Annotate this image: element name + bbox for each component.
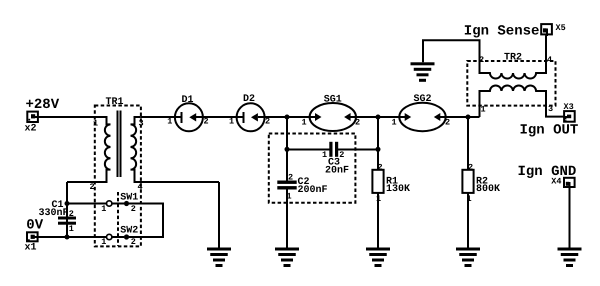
resistor R2: [462, 170, 473, 193]
svg-text:2: 2: [479, 55, 484, 65]
ground (R2): [456, 248, 480, 268]
ground (R1): [366, 248, 390, 268]
svg-text:1: 1: [167, 117, 172, 127]
svg-text:3: 3: [548, 104, 553, 114]
wire TR1 pin4 to ground: [218, 182, 220, 248]
svg-text:2: 2: [339, 150, 344, 160]
wire bus down to R2: [467, 117, 469, 170]
TR2 secondary winding bottom (pins 1-3): [480, 85, 564, 117]
wire node to C3: [287, 148, 330, 150]
svg-text:x1: x1: [25, 243, 37, 254]
svg-text:800K: 800K: [476, 184, 500, 195]
wire C2 to ground: [286, 190, 288, 249]
svg-text:SG1: SG1: [324, 95, 342, 106]
svg-text:2: 2: [288, 172, 293, 182]
wire D2 to SG1: [258, 116, 311, 118]
spark gap SG2: [399, 103, 445, 131]
svg-text:2: 2: [69, 209, 74, 219]
wire X4 to ground: [569, 188, 571, 248]
svg-text:2: 2: [378, 163, 383, 173]
svg-text:2: 2: [468, 163, 473, 173]
svg-text:1: 1: [322, 150, 327, 160]
mechanical linkage (dashed): [117, 192, 119, 246]
wire bus down to R1: [377, 117, 379, 170]
TR1 primary winding (pins 1-2): [67, 117, 111, 182]
svg-text:X3: X3: [564, 102, 574, 112]
wire SG2 to TR2: [446, 116, 480, 118]
switch SW2: [107, 234, 130, 239]
wire R2 to ground: [467, 193, 469, 248]
svg-text:4: 4: [547, 55, 552, 65]
spark gap SG1: [310, 103, 356, 131]
diode D2: [237, 103, 265, 131]
svg-text:1: 1: [93, 119, 98, 129]
TR1 core: [118, 111, 121, 178]
dashed box C2 C3: [269, 134, 356, 203]
ground (TR1 pin4): [207, 248, 231, 268]
wire C3 to R1 node: [338, 148, 378, 150]
svg-text:0V: 0V: [26, 217, 43, 233]
svg-text:130K: 130K: [386, 184, 410, 195]
terminal X4: [564, 178, 575, 188]
TR2 primary winding top (pins 2-4) with wire to ground: [423, 35, 546, 78]
ground (upper, TR2 pin2): [411, 62, 435, 82]
wire link SW1 pin2 to SW2 pin2: [129, 203, 163, 238]
wire SW2 to X1: [40, 236, 107, 238]
svg-text:2: 2: [90, 182, 95, 192]
terminal X5: [541, 24, 552, 36]
svg-text:1: 1: [302, 118, 307, 128]
terminal X1: [27, 232, 40, 241]
svg-text:Ign Sense: Ign Sense: [464, 23, 540, 39]
TR1 secondary winding (pins 3-4): [131, 117, 220, 182]
svg-text:X4: X4: [551, 176, 561, 186]
resistor R1: [372, 170, 383, 193]
wire TR1 to D1: [141, 116, 182, 118]
svg-text:SW2: SW2: [120, 225, 138, 236]
junction dot C2/C3: [285, 147, 290, 152]
svg-text:1: 1: [481, 105, 486, 115]
svg-text:1: 1: [101, 204, 106, 214]
capacitor C3: [329, 142, 338, 157]
svg-text:D1: D1: [182, 95, 194, 106]
svg-text:X5: X5: [556, 23, 566, 33]
wire R1 to ground: [377, 193, 379, 248]
capacitor C1: [58, 217, 76, 225]
transformer TR2 dashed box: [467, 61, 555, 106]
svg-text:2: 2: [131, 237, 136, 247]
junction dot 0V node: [65, 235, 70, 240]
svg-text:TR2: TR2: [504, 53, 522, 64]
wire bus down to C2: [286, 117, 288, 181]
svg-text:1: 1: [101, 237, 106, 247]
wire X2 to TR1: [39, 116, 96, 118]
junction dot node R2 branch: [466, 115, 471, 120]
svg-text:1: 1: [69, 224, 74, 234]
svg-text:Ign GND: Ign GND: [518, 164, 577, 180]
svg-text:+28V: +28V: [26, 97, 60, 113]
svg-text:SG2: SG2: [414, 94, 432, 105]
svg-text:2: 2: [131, 204, 136, 214]
transformer TR1 enclosure (vibrator dashed box): [95, 106, 141, 247]
svg-text:20nF: 20nF: [325, 165, 349, 176]
svg-text:3: 3: [139, 119, 144, 129]
wire D1 to D2: [196, 116, 244, 118]
svg-text:2: 2: [445, 118, 450, 128]
junction dot node R1 branch: [376, 115, 381, 120]
wire node to SW1: [67, 203, 106, 205]
terminal X3: [563, 111, 575, 122]
svg-text:Ign OUT: Ign OUT: [520, 123, 579, 139]
wire TR1 pin2 down to node C1: [66, 182, 68, 237]
junction dot node C2 branch: [285, 115, 290, 120]
capacitor C2: [277, 181, 296, 190]
junction dot C3/R1: [376, 147, 381, 152]
switch SW1: [107, 201, 163, 206]
ground (X4): [558, 248, 582, 268]
svg-text:SW1: SW1: [120, 192, 138, 203]
svg-text:x2: x2: [25, 124, 37, 135]
svg-text:D2: D2: [243, 94, 255, 105]
junction dot node C1 top: [65, 201, 70, 206]
svg-text:1: 1: [392, 118, 397, 128]
terminal X2: [27, 112, 40, 122]
svg-text:4: 4: [138, 182, 143, 192]
svg-text:200nF: 200nF: [298, 185, 328, 196]
svg-text:1: 1: [229, 117, 234, 127]
diode D1: [175, 103, 203, 131]
ground (C2): [275, 248, 299, 268]
wire SG1 to SG2: [356, 116, 400, 118]
svg-text:2: 2: [355, 118, 360, 128]
svg-text:TR1: TR1: [106, 97, 124, 108]
